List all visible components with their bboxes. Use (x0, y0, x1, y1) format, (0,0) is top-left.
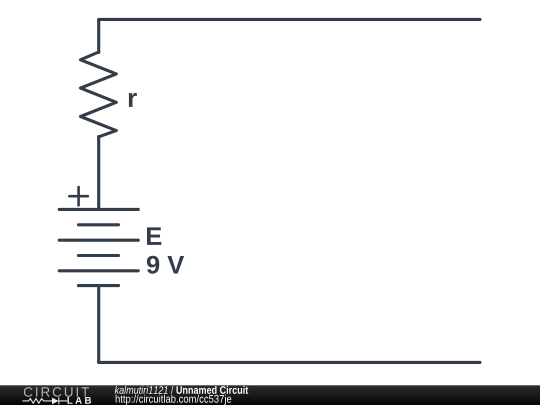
CircuitLab logo: LAB wordmark (67, 397, 91, 404)
resistor R1 (r) zigzag body (81, 52, 117, 137)
battery V1 (E) plates (59, 209, 138, 285)
CircuitLab logo: diode triangle (52, 398, 59, 405)
attribution line 2: url (116, 395, 232, 405)
wire: bottom horizontal rail to open right end (99, 361, 480, 364)
attribution line 1: user / title (115, 386, 248, 394)
footer bar (0, 385, 540, 405)
wire: top horizontal from node A (left corner) to open right end (99, 19, 480, 52)
CircuitLab logo: CIRCUIT wordmark (24, 387, 89, 397)
CircuitLab logo: resistor-diode symbol (23, 398, 67, 404)
label E (battery name) (147, 227, 161, 245)
wire: battery bottom terminal down to bottom rail (97, 286, 100, 363)
label 9 V (battery value) (147, 256, 184, 274)
wire: resistor bottom to battery top plate (97, 137, 100, 210)
label r (resistor name) (129, 93, 137, 107)
battery plus polarity mark (69, 187, 87, 205)
